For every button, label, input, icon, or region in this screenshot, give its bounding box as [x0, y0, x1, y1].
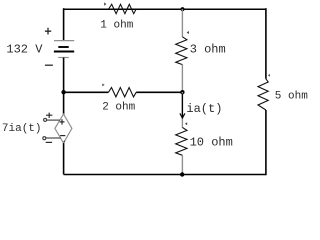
terminal lead lower	[46, 137, 61, 139]
wire left lower (diamond bottom to bottom corner)	[63, 143, 65, 174]
wire left mid (battery to diamond top)	[63, 58, 65, 115]
current arrow head	[180, 113, 185, 118]
battery V1 plate bottom short gray	[58, 57, 68, 59]
wire lead below R3 gray	[181, 64, 183, 92]
svg-text:7ia(t): 7ia(t)	[2, 123, 42, 135]
terminal minus sign	[46, 141, 52, 143]
wire left upper (top corner to battery)	[63, 8, 65, 40]
tick mark R4	[185, 122, 187, 125]
terminal circle lower	[43, 137, 46, 140]
terminal plus sign	[46, 113, 52, 118]
wire middle horizontal right segment	[136, 91, 182, 93]
terminal lead upper	[47, 119, 60, 121]
node dot middle junction	[180, 90, 184, 94]
resistor R3 3 ohm zigzag	[176, 37, 187, 65]
tick mark R1	[104, 2, 106, 5]
tick mark R5	[268, 74, 270, 77]
battery V1 plate 2 short black	[58, 46, 68, 48]
battery minus sign	[45, 64, 53, 66]
wire top (left corner to right corner)	[64, 8, 266, 10]
dependent source B1 diamond 7ia(t)	[55, 114, 72, 143]
svg-text:1 ohm: 1 ohm	[100, 20, 133, 32]
wire bottom	[64, 174, 266, 176]
node dot top junction	[180, 7, 184, 11]
tick mark diamond	[63, 140, 65, 142]
resistor R1 1 ohm zigzag	[109, 4, 137, 13]
svg-text:3 ohm: 3 ohm	[190, 42, 226, 56]
svg-text:2 ohm: 2 ohm	[102, 101, 135, 113]
resistor R2 2 ohm zigzag	[108, 88, 136, 97]
battery plus sign	[45, 28, 51, 35]
svg-text:5 ohm: 5 ohm	[275, 91, 308, 103]
battery V1 132V plate top long	[54, 40, 74, 42]
battery V1 plate 3 long black	[54, 51, 74, 53]
resistor R4 10 ohm zigzag	[176, 127, 187, 155]
svg-text:10 ohm: 10 ohm	[190, 136, 233, 150]
node dot bottom junction	[180, 172, 184, 176]
tick mark R2	[102, 84, 104, 87]
diamond internal plus	[60, 119, 65, 124]
diamond internal minus	[60, 135, 65, 137]
node dot left-mid junction	[61, 90, 65, 94]
wire right lower	[265, 110, 267, 175]
tick mark R3	[187, 31, 189, 34]
svg-text:132 V: 132 V	[6, 43, 43, 57]
wire lead above R3 gray	[181, 9, 183, 37]
terminal circle upper	[44, 118, 47, 121]
wire right upper	[265, 8, 267, 79]
wire gray between middle node and R4	[181, 92, 183, 128]
current arrow ia(t) shaft	[181, 94, 183, 118]
resistor R5 5 ohm zigzag	[258, 79, 268, 110]
wire lead below R4 gray	[181, 155, 183, 174]
svg-text:ia(t): ia(t)	[186, 102, 222, 116]
wire middle horizontal left segment	[64, 91, 109, 93]
